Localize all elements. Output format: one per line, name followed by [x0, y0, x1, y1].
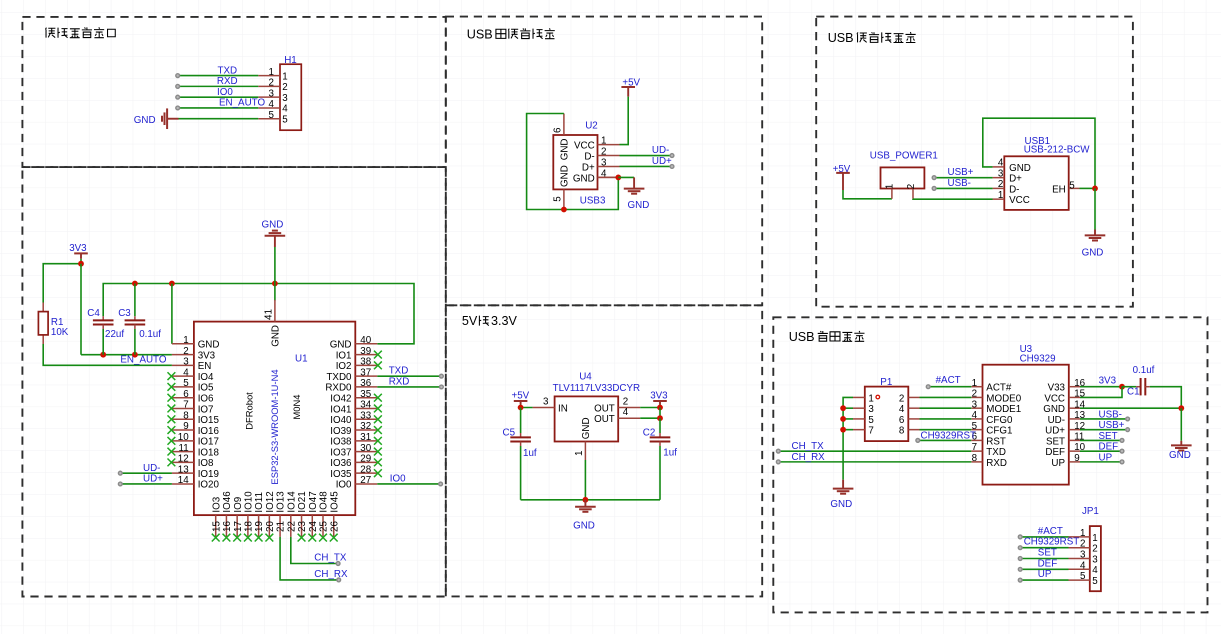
svg-text:UD+: UD+: [652, 156, 672, 167]
pin 39 of U1 IO1: [355, 354, 377, 356]
svg-text:4: 4: [282, 104, 288, 115]
no-connect dot RXD: [176, 84, 180, 88]
wire GND down box5: [1094, 188, 1096, 229]
junction U2 pin4: [615, 174, 621, 180]
svg-text:SET: SET: [1038, 548, 1057, 559]
pin 3 of U1 EN: [172, 364, 194, 366]
svg-text:#ACT: #ACT: [1038, 526, 1063, 537]
pin 34 of U1 IO41: [355, 407, 377, 409]
svg-text:USB: USB: [828, 31, 854, 45]
wire DEF from U3: [1080, 450, 1122, 452]
svg-text:GND: GND: [270, 325, 281, 347]
svg-text:6: 6: [552, 127, 563, 133]
svg-text:2: 2: [972, 389, 977, 400]
junction C3 3V3: [132, 352, 138, 358]
wire +5V to USB_POWER1 pin1: [843, 190, 892, 199]
wire UD+ to U1 pin14: [120, 483, 172, 485]
pin 35 of U1 IO42: [355, 397, 377, 399]
pin 1 of H1: [258, 75, 280, 77]
pin 5 of U3 CFG1: [971, 429, 982, 431]
capacitor C2: [659, 418, 661, 433]
svg-text:1uf: 1uf: [523, 448, 537, 459]
ground symbol box6 right: [1171, 445, 1192, 450]
svg-text:MODE0: MODE0: [986, 393, 1021, 404]
pin 14 of U1 IO20: [172, 483, 194, 485]
junction OUT2: [657, 405, 663, 411]
svg-text:OUT: OUT: [594, 414, 615, 425]
pin 41 of U1: [274, 300, 276, 322]
svg-text:C5: C5: [503, 427, 516, 438]
wire GND symbol to rail: [274, 247, 276, 284]
svg-text:1: 1: [601, 136, 606, 147]
svg-text:1: 1: [269, 67, 274, 78]
svg-text:1: 1: [998, 190, 1003, 201]
pin 32 of U1 IO39: [355, 429, 377, 431]
wire UD- from U2 D-: [620, 155, 673, 157]
svg-text:VCC: VCC: [1044, 393, 1065, 404]
pin 6 of U1 IO6: [172, 397, 194, 399]
svg-text:EN_AUTO: EN_AUTO: [219, 98, 265, 109]
section frame ESP32 MCU: [22, 167, 445, 596]
svg-text:GND: GND: [1009, 163, 1031, 174]
ground symbol box3: [624, 189, 645, 194]
pin 7 of U3 TXD: [971, 450, 982, 452]
svg-text:CH9329RST: CH9329RST: [1024, 537, 1080, 548]
pin 26 of U1 IO45: [333, 515, 335, 537]
wire USB+ from U3: [1080, 429, 1128, 431]
svg-text:IO46: IO46: [222, 491, 233, 513]
pin 5 of U2 GND bottom: [563, 189, 565, 209]
svg-text:13: 13: [178, 464, 189, 475]
pin 4 of P1: [908, 407, 919, 409]
svg-text:15: 15: [211, 521, 222, 532]
svg-text:14: 14: [178, 475, 189, 486]
svg-text:IO0: IO0: [217, 87, 233, 98]
svg-text:3: 3: [282, 93, 288, 104]
svg-text:CH_TX: CH_TX: [792, 441, 825, 452]
svg-text:IO41: IO41: [330, 404, 351, 415]
pin 1 of USB_POWER1: [891, 189, 893, 199]
svg-text:ACT#: ACT#: [986, 383, 1012, 394]
svg-text:RXD0: RXD0: [325, 383, 352, 394]
svg-text:IO8: IO8: [198, 458, 214, 469]
svg-text:D-: D-: [1009, 184, 1019, 195]
wire USB- from U3: [1080, 418, 1128, 420]
svg-text:5: 5: [183, 378, 189, 389]
pin 14 of U3 GND: [1069, 407, 1080, 409]
wire IO0 to H1 pin 3: [178, 96, 259, 98]
wire P1 pin2 to U3: [920, 396, 972, 398]
connector U2 USB3 body: [553, 135, 597, 189]
wire 3V3 port to node: [80, 259, 82, 264]
section frame USB 键盘设备: [773, 317, 1207, 612]
svg-text:5: 5: [1080, 571, 1086, 582]
wire 3V3 to U4 OUT4: [640, 408, 660, 419]
svg-text:V33: V33: [1048, 383, 1066, 394]
pin 2 of P1: [908, 396, 919, 398]
wire C1 to GND corner: [1150, 387, 1182, 408]
svg-text:H1: H1: [284, 55, 297, 66]
svg-text:IO39: IO39: [330, 426, 351, 437]
wire CH_TX to U3 TXD: [778, 450, 971, 452]
wire VCC up to 3V3: [1080, 387, 1122, 398]
svg-text:UD-: UD-: [652, 145, 669, 156]
wire CH_RX from U1 pin21: [280, 537, 339, 580]
svg-text:U1: U1: [295, 354, 308, 365]
pin1 marker dot P1: [876, 395, 880, 399]
svg-text:DEF: DEF: [1038, 558, 1058, 569]
pin 3 of H1: [258, 96, 280, 98]
junction U4 GND rail: [583, 497, 589, 503]
pin 1 of U3 ACT#: [971, 386, 982, 388]
svg-text:38: 38: [360, 357, 371, 368]
svg-text:2: 2: [1092, 544, 1097, 555]
svg-text:USB: USB: [467, 27, 493, 41]
pin 12 of U1 IO8: [172, 461, 194, 463]
svg-text:UP: UP: [1099, 452, 1113, 463]
wire UP to JP1: [1020, 579, 1068, 581]
svg-text:2: 2: [623, 397, 628, 408]
svg-text:SET: SET: [1099, 431, 1118, 442]
svg-text:2: 2: [906, 184, 917, 189]
svg-text:SET: SET: [1046, 436, 1065, 447]
svg-text:5: 5: [868, 415, 874, 426]
wire UD+ from U2 D+: [620, 165, 673, 167]
wire TXD to H1 pin 1: [178, 75, 259, 77]
svg-text:IO35: IO35: [330, 469, 352, 480]
svg-text:9: 9: [183, 421, 188, 432]
pin 5 of U1 IO5: [172, 386, 194, 388]
pin 8 of U3 RXD: [971, 461, 982, 463]
svg-text:EN: EN: [198, 361, 212, 372]
svg-text:USB+: USB+: [1099, 420, 1125, 431]
pin 2 of U4 OUT: [618, 407, 640, 409]
pin 2 of H1: [258, 85, 280, 87]
pin 4 of U3 CFG0: [971, 418, 982, 420]
pin 4 of JP1: [1069, 568, 1090, 570]
svg-text:USB-: USB-: [1099, 409, 1122, 420]
svg-text:P1: P1: [880, 377, 892, 388]
junction OUT4: [657, 415, 663, 421]
svg-text:IO16: IO16: [198, 426, 220, 437]
capacitor C1: [1122, 386, 1136, 388]
svg-text:22: 22: [286, 521, 297, 532]
svg-text:2: 2: [998, 179, 1003, 190]
svg-text:GND: GND: [134, 115, 156, 126]
wire P1 pin4 to U3: [920, 407, 972, 409]
svg-text:4: 4: [1080, 560, 1086, 571]
pin 6 of P1: [908, 418, 919, 420]
pin 7 of P1: [853, 429, 865, 431]
svg-text:JP1: JP1: [1082, 506, 1099, 517]
svg-text:GND: GND: [198, 340, 220, 351]
svg-text:TXD: TXD: [986, 447, 1006, 458]
connector USB1 body: [1004, 156, 1068, 210]
pin 2 of JP1: [1069, 547, 1090, 549]
svg-text:IO18: IO18: [198, 447, 220, 458]
svg-text:1: 1: [868, 393, 873, 404]
svg-text:ESP32-S3-WROOM-1U-N4: ESP32-S3-WROOM-1U-N4: [269, 369, 280, 484]
pin 4 of USB1 GND: [993, 166, 1005, 168]
pin 4 of U1 IO4: [172, 375, 194, 377]
ground symbol box5: [1085, 235, 1106, 240]
resistor R1: [42, 303, 44, 312]
pin 3 of U3 MODE1: [971, 407, 982, 409]
junction GND box6: [1178, 405, 1184, 411]
pin 23 of U1 IO21: [301, 515, 303, 537]
svg-text:IO4: IO4: [198, 372, 214, 383]
svg-text:IO7: IO7: [198, 404, 214, 415]
no-connect X bottom pins U1: [212, 534, 220, 542]
svg-text:TXD0: TXD0: [326, 372, 352, 383]
svg-text:IO17: IO17: [198, 437, 219, 448]
svg-text:3: 3: [868, 404, 874, 415]
wire CH9329RST to JP1: [1020, 547, 1068, 549]
wire UP from U3: [1080, 461, 1122, 463]
junction +5V C5: [518, 405, 524, 411]
svg-text:1: 1: [884, 184, 895, 189]
svg-text:GND: GND: [1043, 404, 1065, 415]
section frame 5V转3.3V: [446, 305, 762, 596]
svg-text:#ACT: #ACT: [936, 375, 961, 386]
wire IO0 from U1: [377, 483, 440, 485]
pin 13 of U1 IO19: [172, 472, 194, 474]
pin 6 of U3 RST: [971, 439, 982, 441]
svg-text:3V3: 3V3: [1099, 375, 1117, 386]
pin 1 of JP1: [1069, 536, 1090, 538]
svg-text:7: 7: [868, 426, 873, 437]
svg-text:C4: C4: [87, 308, 100, 319]
wire P1 pin8 to U3: [920, 429, 972, 431]
svg-text:IO3: IO3: [211, 496, 222, 512]
svg-text:RXD: RXD: [986, 458, 1007, 469]
svg-text:31: 31: [360, 432, 371, 443]
svg-text:4: 4: [972, 410, 978, 421]
svg-text:M0N4: M0N4: [291, 394, 302, 419]
svg-text:32: 32: [360, 421, 371, 432]
svg-text:25: 25: [319, 521, 330, 532]
svg-text:11: 11: [179, 443, 189, 454]
svg-text:8: 8: [972, 453, 978, 464]
wire 3V3 to R1: [43, 264, 81, 303]
wire U4 GND pin to rail: [584, 460, 586, 500]
pin 21 of U1 IO13: [279, 515, 281, 537]
ground symbol box1: [162, 108, 167, 129]
svg-text:UD+: UD+: [143, 474, 163, 485]
svg-text:IO14: IO14: [286, 491, 297, 513]
svg-text:IO42: IO42: [330, 394, 351, 405]
pin 2 of U2 D-: [598, 155, 620, 157]
junction GND symbol node: [272, 281, 278, 287]
svg-text:TLV1117LV33DCYR: TLV1117LV33DCYR: [553, 383, 641, 394]
pin 2 of USB1 D-: [993, 187, 1005, 189]
svg-text:RXD: RXD: [389, 377, 410, 388]
pin 17 of U1 IO9: [236, 515, 238, 537]
pin 22 of U1 IO14: [290, 515, 292, 537]
pin 4 of H1: [258, 107, 280, 109]
svg-text:CFG0: CFG0: [986, 415, 1013, 426]
svg-text:17: 17: [233, 521, 244, 532]
ground symbol P1: [842, 480, 844, 489]
pin 11 of U1 IO18: [172, 451, 194, 453]
svg-text:GND: GND: [330, 340, 352, 351]
pin 8 of U1 IO15: [172, 418, 194, 420]
svg-text:19: 19: [254, 521, 265, 532]
svg-text:USB: USB: [789, 330, 815, 344]
section frame 调试烧录接口: [22, 17, 445, 167]
svg-text:GND: GND: [628, 200, 650, 211]
capacitor C3: [134, 284, 136, 317]
svg-text:1: 1: [972, 378, 977, 389]
svg-text:USB-212-BCW: USB-212-BCW: [1024, 144, 1091, 155]
svg-text:IO19: IO19: [198, 469, 219, 480]
pin 31 of U1 IO38: [355, 440, 377, 442]
connector USB_POWER1 body: [881, 167, 925, 188]
pin 16 of U3 V33: [1069, 386, 1080, 388]
svg-text:IO6: IO6: [198, 394, 214, 405]
svg-text:35: 35: [360, 389, 371, 400]
pin 11 of U3 SET: [1069, 439, 1080, 441]
svg-text:1: 1: [1080, 528, 1085, 539]
svg-text:3V3: 3V3: [198, 350, 216, 361]
svg-text:2: 2: [282, 82, 287, 93]
svg-text:3V3: 3V3: [69, 243, 87, 254]
wire 3V3 to U4 OUT2: [640, 405, 660, 408]
wire USB_POWER1 pin2 to USB1 VCC: [913, 198, 993, 200]
svg-text:16: 16: [222, 521, 233, 532]
svg-text:2: 2: [269, 78, 274, 89]
no-connect X right pins U1: [374, 351, 382, 359]
svg-text:UD-: UD-: [143, 463, 160, 474]
wire USB- to USB1 D-: [934, 187, 993, 189]
pin 29 of U1 IO36: [355, 461, 377, 463]
svg-text:2: 2: [1080, 539, 1085, 550]
pin 33 of U1 IO40: [355, 418, 377, 420]
net port 3V3: [74, 252, 88, 254]
svg-text:3: 3: [601, 158, 607, 169]
svg-text:UP: UP: [1051, 458, 1065, 469]
wire U2 pin4 GND node: [598, 176, 619, 178]
svg-text:10: 10: [178, 432, 189, 443]
svg-text:6: 6: [183, 389, 189, 400]
svg-text:1: 1: [574, 451, 585, 456]
svg-text:IO45: IO45: [329, 491, 340, 513]
svg-text:21: 21: [276, 521, 287, 532]
wire GND bottom rail box4: [521, 499, 660, 501]
pin 1 of U1 GND: [172, 343, 194, 345]
svg-text:GND: GND: [573, 173, 595, 184]
svg-text:24: 24: [308, 521, 319, 532]
wire #ACT to JP1: [1020, 536, 1068, 538]
wire EH to GND: [1080, 187, 1096, 189]
svg-text:0.1uf: 0.1uf: [139, 329, 161, 340]
wire GND to H1 pin 5: [167, 118, 178, 120]
junction 3V3 V33: [1119, 384, 1125, 390]
svg-text:22uf: 22uf: [105, 329, 124, 340]
svg-text:EN_AUTO: EN_AUTO: [120, 355, 166, 366]
wire SET to JP1: [1020, 558, 1068, 560]
svg-text:40: 40: [360, 335, 371, 346]
svg-text:IO21: IO21: [297, 491, 308, 512]
wire GND rail top: [103, 284, 414, 344]
svg-text:IO48: IO48: [319, 491, 330, 513]
svg-text:C2: C2: [643, 427, 656, 438]
svg-text:4: 4: [183, 367, 189, 378]
svg-text:IN: IN: [558, 403, 568, 414]
svg-text:CH_RX: CH_RX: [314, 569, 348, 580]
svg-text:USB3: USB3: [580, 195, 606, 206]
svg-text:37: 37: [360, 367, 371, 378]
svg-text:4: 4: [899, 404, 905, 415]
svg-text:30: 30: [360, 443, 371, 454]
wire V33 to 3V3 node: [1080, 386, 1122, 388]
svg-text:U4: U4: [579, 372, 592, 383]
pin 9 of U3 UP: [1069, 461, 1080, 463]
svg-text:DEF: DEF: [1045, 447, 1065, 458]
svg-text:4: 4: [998, 158, 1004, 169]
capacitor C5: [520, 408, 522, 434]
header P1 body: [865, 387, 909, 442]
svg-text:3.3V: 3.3V: [491, 314, 518, 328]
svg-text:6: 6: [899, 415, 905, 426]
pin 2 of USB_POWER1: [912, 189, 914, 199]
svg-text:IO2: IO2: [336, 361, 352, 372]
pin 40 of U1 GND: [355, 343, 377, 345]
pin 4 of U2 GND: [598, 176, 620, 178]
svg-text:IO12: IO12: [265, 491, 276, 512]
svg-text:CH9329: CH9329: [1020, 354, 1056, 365]
svg-text:MODE1: MODE1: [986, 404, 1021, 415]
svg-text:VCC: VCC: [574, 141, 595, 152]
section frame USB 公头接主机: [816, 17, 1133, 307]
svg-text:RST: RST: [986, 436, 1006, 447]
svg-text:IO38: IO38: [330, 437, 352, 448]
pin 13 of U3 UD-: [1069, 418, 1080, 420]
wire stub P1 left: [843, 429, 853, 431]
wire 3V3 rail: [81, 354, 172, 356]
svg-text:3: 3: [543, 396, 549, 407]
wire +5V node to U4 IN: [521, 405, 533, 408]
svg-text:8: 8: [183, 410, 189, 421]
svg-text:29: 29: [360, 454, 371, 465]
svg-text:C3: C3: [118, 308, 131, 319]
wire #ACT to U3 pin1: [928, 386, 971, 388]
wire P1 pin6 to U3: [920, 418, 972, 420]
svg-text:1: 1: [1092, 533, 1097, 544]
svg-text:IO40: IO40: [330, 415, 352, 426]
svg-text:2: 2: [899, 393, 904, 404]
wire TXD from U1: [377, 375, 441, 377]
wire junction to GND symbol: [618, 176, 634, 178]
pin 7 of U1 IO7: [172, 407, 194, 409]
wire RXD to H1 pin 2: [178, 85, 259, 87]
svg-text:IO36: IO36: [330, 458, 352, 469]
svg-text:3: 3: [972, 399, 978, 410]
wire U1 pin1 to GND rail: [171, 284, 173, 344]
svg-text:27: 27: [360, 475, 371, 486]
wire CH_RX to U3 RXD: [778, 461, 971, 463]
svg-text:1uf: 1uf: [663, 448, 677, 459]
svg-text:2: 2: [601, 147, 606, 158]
svg-text:TXD: TXD: [389, 366, 409, 377]
wire rail to U1 pin41: [274, 284, 276, 301]
wire R1 to EN line: [43, 344, 172, 365]
pin 9 of U1 IO16: [172, 429, 194, 431]
svg-text:4: 4: [269, 99, 275, 110]
svg-text:2: 2: [183, 346, 188, 357]
wire stub P1 left: [843, 407, 853, 409]
svg-text:26: 26: [329, 521, 340, 532]
